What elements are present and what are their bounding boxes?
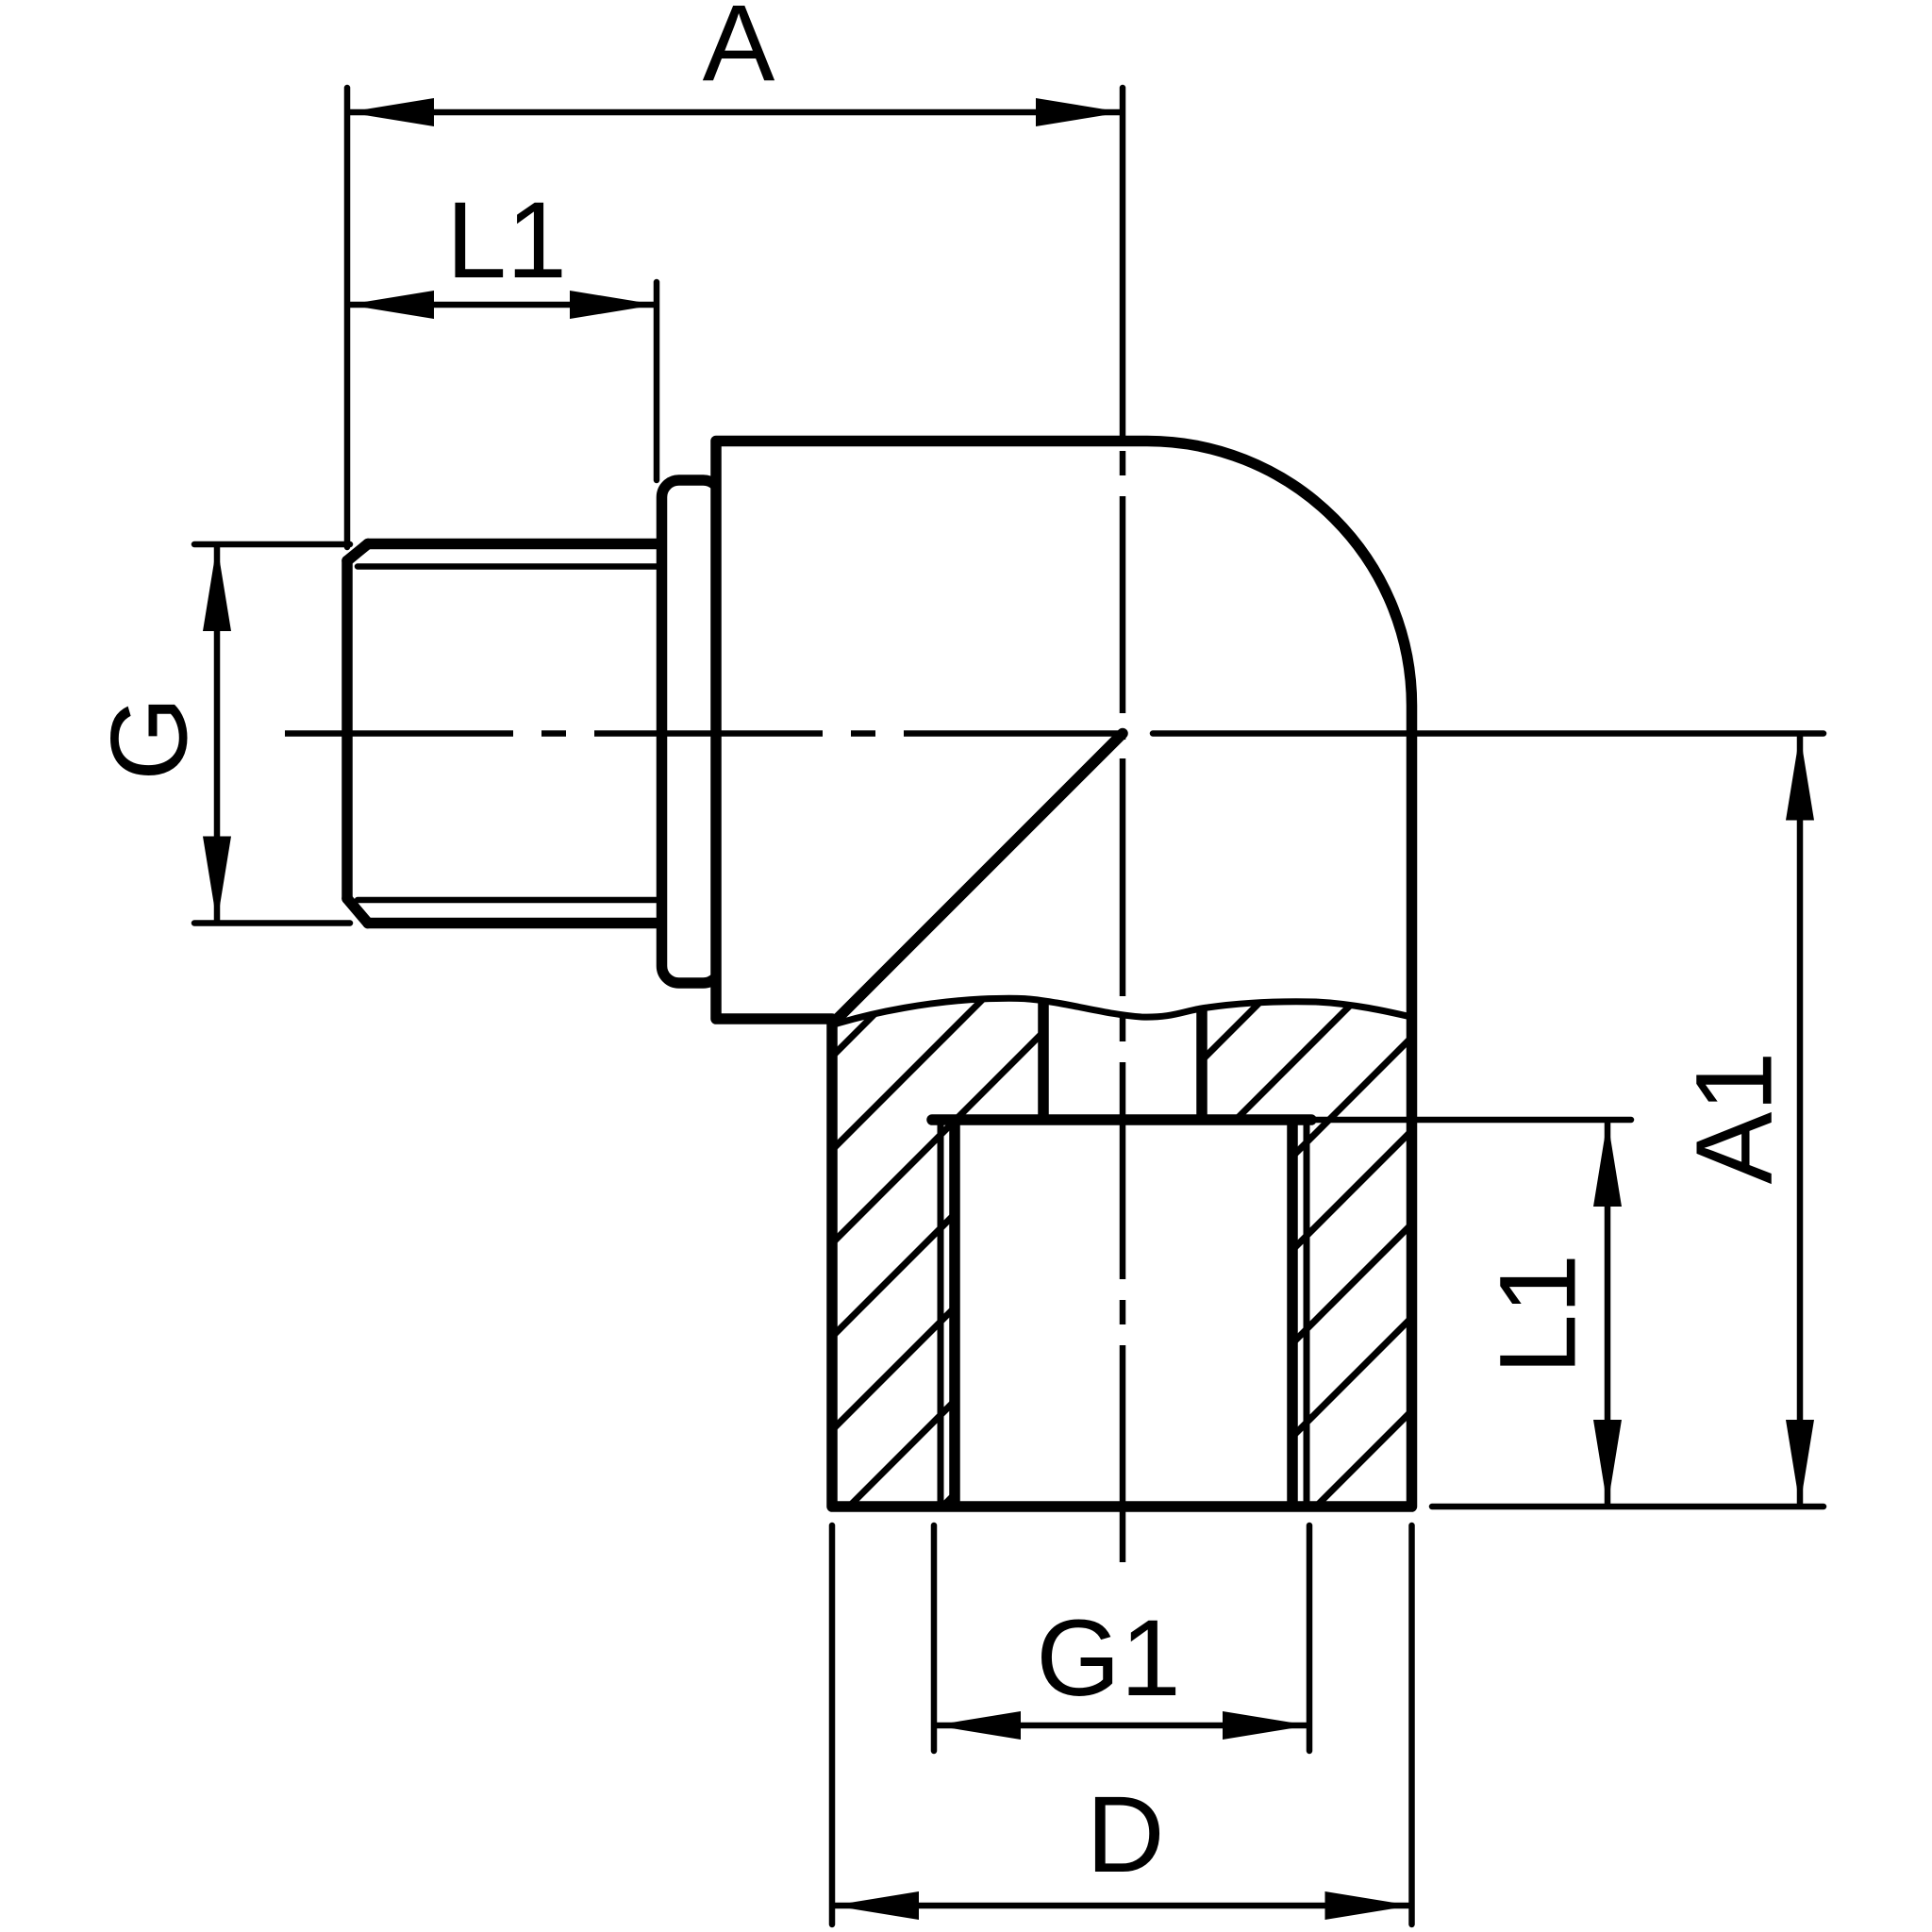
dimension D extension lines	[832, 1525, 1412, 1924]
upper bore walls	[1038, 1002, 1049, 1120]
dimension G line	[214, 544, 221, 924]
svg-text:A: A	[703, 0, 775, 104]
inner corner diagonal	[836, 734, 1123, 1021]
female thread socket top	[932, 1114, 1311, 1125]
elbow body outline	[716, 441, 1412, 1507]
svg-text:G: G	[89, 696, 209, 780]
svg-text:G1: G1	[1036, 1598, 1180, 1719]
vertical centerline	[1120, 451, 1126, 1574]
section hatching redrawn over body fill: left	[384, 906, 1637, 1505]
male thread outline	[347, 544, 661, 924]
dimension L1 bottom extension line	[1311, 1117, 1631, 1124]
svg-text:D: D	[1086, 1774, 1164, 1895]
svg-text:A1: A1	[1674, 1052, 1794, 1185]
dimension L1 bottom line	[1605, 1120, 1611, 1507]
svg-text:L1: L1	[1477, 1254, 1598, 1374]
dimension L1 top line	[347, 302, 657, 308]
dimension A1 extension lines	[1153, 734, 1824, 1507]
dimension A1 line	[1797, 734, 1804, 1507]
dimension A line	[347, 109, 1123, 116]
dimension L1 top extension line	[654, 282, 660, 480]
dimension G extension lines	[194, 544, 350, 924]
female thread bore thick lines	[949, 1123, 960, 1507]
section hatching redrawn over body fill: right	[664, 906, 1932, 1505]
break (wavy) line	[834, 998, 1411, 1024]
collar flange	[662, 480, 721, 983]
dimension A extension lines	[347, 88, 1123, 547]
male thread minor diameter thin lines	[358, 567, 661, 901]
horizontal centerline	[285, 730, 1125, 737]
dimension G1 extension lines	[934, 1525, 1309, 1751]
female thread crest thin lines	[938, 1123, 944, 1502]
svg-text:L1: L1	[446, 180, 567, 301]
dimension G1 line	[934, 1723, 1309, 1729]
dimension D line	[832, 1903, 1412, 1909]
